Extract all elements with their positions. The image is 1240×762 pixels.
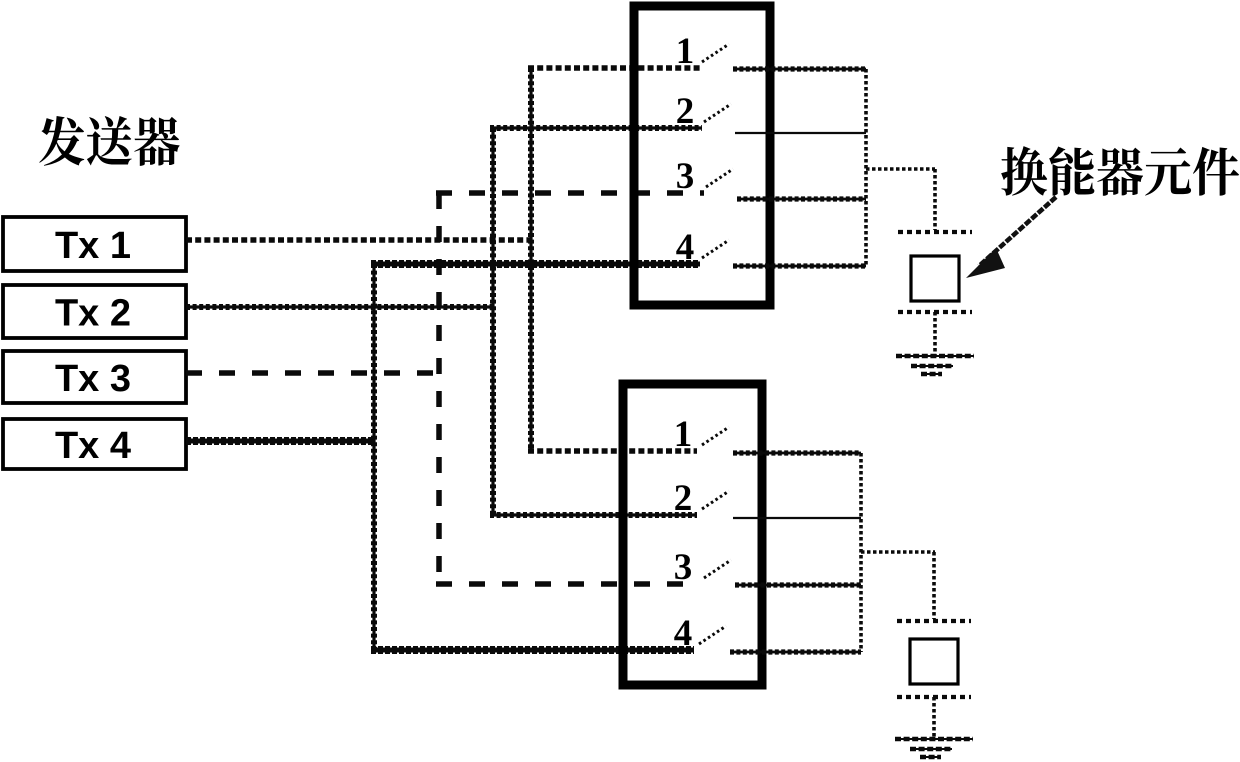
bottom transducer top plate <box>897 619 971 623</box>
bottom transducer bottom plate <box>897 695 971 699</box>
top bank switch 4 blade <box>702 240 729 258</box>
arrow shaft from label to transducer element <box>979 197 1056 266</box>
svg-text:1: 1 <box>674 414 693 455</box>
top transducer top plate <box>898 230 972 234</box>
svg-text:4: 4 <box>674 613 693 654</box>
top bank switch 1 blade <box>702 44 729 62</box>
wire Tx2 branch into bottom bank switch <box>490 513 697 516</box>
transmitter box Tx 4 <box>3 419 186 469</box>
wire Tx3 branch into top bank switch <box>436 190 704 196</box>
bottom bank switch 3 blade <box>704 560 731 578</box>
svg-text:4: 4 <box>676 227 695 268</box>
svg-text:1: 1 <box>676 31 695 72</box>
top bank switch 4 output wire <box>733 265 866 268</box>
top transducer bottom plate <box>898 310 972 314</box>
svg-text:2: 2 <box>676 91 695 132</box>
wire Tx3 vertical bus <box>436 193 442 584</box>
wire Tx1 horizontal from Tx box <box>186 237 531 243</box>
bottom bank switch 4 output wire <box>730 651 861 654</box>
bottom switch bank box <box>623 384 762 685</box>
transmitter box Tx 1 <box>3 217 186 271</box>
top bank switch 3 blade <box>706 169 733 187</box>
top transducer element square <box>911 256 959 301</box>
top bank switch 2 output wire <box>735 132 866 134</box>
wire Tx2 horizontal from Tx box <box>186 305 493 308</box>
svg-text:Tx 3: Tx 3 <box>55 358 131 400</box>
label "发送器" (transmitter) <box>39 116 179 166</box>
bottom bank switch 3 output wire <box>735 584 861 587</box>
bottom transducer feed wire <box>932 552 936 619</box>
top bank wire to transducer <box>866 167 935 171</box>
bottom bank wire to transducer <box>861 550 935 554</box>
wire Tx4 branch into bottom bank switch <box>371 648 694 653</box>
bottom bank switch 2 output wire <box>733 517 861 519</box>
wire Tx1 branch into top bank switch <box>528 65 700 71</box>
top ground symbol <box>896 356 974 374</box>
bottom transducer ground wire <box>932 697 936 739</box>
svg-text:Tx 2: Tx 2 <box>55 293 131 335</box>
bottom bank switch 1 blade <box>702 427 729 445</box>
bottom transducer element square <box>910 639 958 684</box>
bottom ground symbol <box>895 739 973 757</box>
top bank switch 2 blade <box>704 104 731 122</box>
top bank output bus <box>864 69 868 266</box>
top bank switch 3 output wire <box>737 198 866 201</box>
svg-text:3: 3 <box>674 547 693 588</box>
top transducer ground wire <box>933 312 937 356</box>
transmitter box Tx 2 <box>3 285 186 338</box>
bottom bank switch 4 blade <box>699 626 726 644</box>
wire Tx1 vertical bus <box>529 68 532 451</box>
wire Tx3 horizontal from Tx box <box>186 370 439 376</box>
bottom bank output bus <box>859 453 863 652</box>
wire Tx3 branch into bottom bank switch <box>436 581 700 587</box>
svg-text:Tx 1: Tx 1 <box>55 225 131 267</box>
wire Tx4 branch into top bank switch <box>371 262 700 267</box>
wire Tx1 branch into bottom bank switch <box>528 448 697 454</box>
svg-text:3: 3 <box>676 156 695 197</box>
svg-text:2: 2 <box>674 478 693 519</box>
wire Tx2 vertical bus <box>491 128 494 515</box>
top switch bank box <box>634 6 770 305</box>
bottom bank switch 2 blade <box>702 491 729 509</box>
wire Tx4 horizontal from Tx box <box>186 439 374 444</box>
top transducer feed wire <box>933 169 937 230</box>
svg-text:Tx 4: Tx 4 <box>55 425 131 467</box>
transmitter box Tx 3 <box>3 351 186 403</box>
label "换能器元件" (transducer element) <box>1001 146 1239 196</box>
arrow head <box>966 248 1005 278</box>
wire Tx2 branch into top bank switch <box>490 126 702 129</box>
top bank switch 1 output wire <box>733 68 866 71</box>
wire Tx4 vertical bus <box>372 264 375 650</box>
bottom bank switch 1 output wire <box>733 452 861 455</box>
